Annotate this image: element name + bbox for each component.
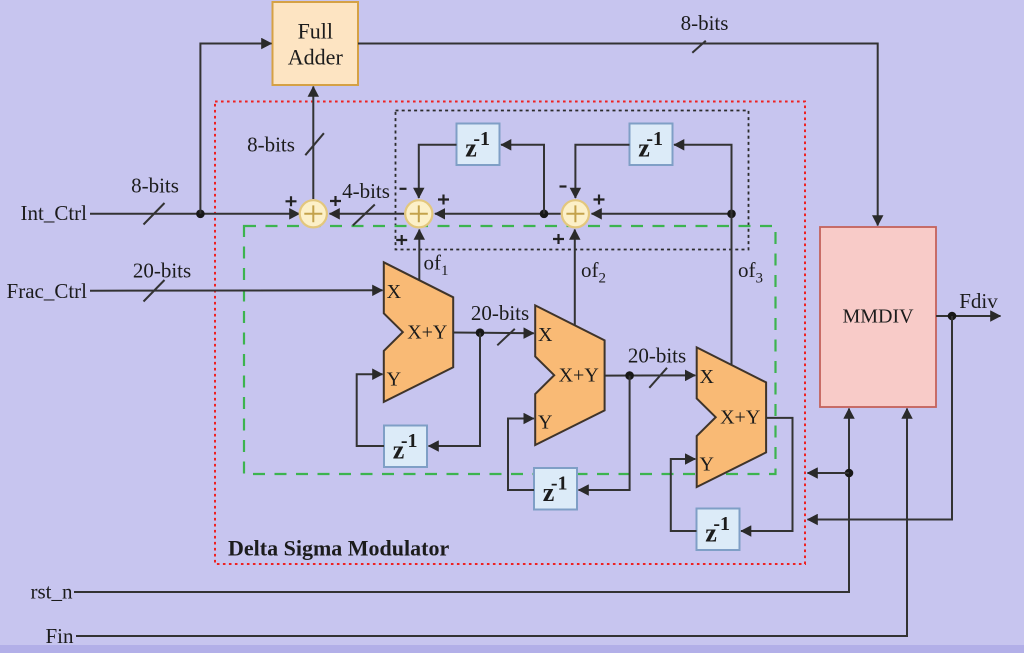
svg-text:Fdiv: Fdiv [959,289,998,313]
svg-text:X+Y: X+Y [559,365,599,387]
wire S3 to S2 [435,213,561,215]
svg-text:-1: -1 [713,513,730,535]
accumulator adder A3 [697,347,766,487]
delay block Z1 [457,124,500,166]
svg-text:Frac_Ctrl: Frac_Ctrl [7,279,88,303]
svg-text:8-bits: 8-bits [131,174,179,198]
svg-text:20-bits: 20-bits [628,344,686,368]
node junction A1 output [476,328,485,337]
wire Z1 to S2 [419,145,457,198]
svg-text:X+Y: X+Y [720,407,760,429]
svg-text:X: X [538,324,553,346]
svg-text:X: X [699,366,714,388]
svg-text:X: X [387,281,402,303]
wire A2 tap to Z4 [579,376,630,490]
svg-text:-1: -1 [473,128,490,150]
summing node S1 [300,200,327,227]
block Full Adder [273,2,359,85]
svg-text:Y: Y [387,369,401,391]
svg-text:20-bits: 20-bits [471,301,529,325]
wire Frac_Ctrl input [90,280,383,302]
wire Fdiv output [936,315,1001,317]
wire rst_n [74,409,849,593]
wire A3 output to Z5 [741,418,793,531]
svg-text:Adder: Adder [288,45,344,70]
block MMDIV [820,227,936,407]
delay block Z5 [697,509,740,551]
node junction Fdiv [948,312,957,321]
svg-text:Delta Sigma Modulator: Delta Sigma Modulator [228,536,449,561]
wire Int_Ctrl to Full Adder [200,44,271,214]
svg-text:Y: Y [699,454,713,476]
svg-text:Fin: Fin [45,624,74,648]
node junction rst_n [845,469,854,478]
green dashed boundary accumulator core [244,226,776,474]
svg-text:-1: -1 [551,473,568,495]
node junction of3 [727,210,736,219]
sign plus S3 right [594,195,605,205]
sign minus S3 top [560,185,567,187]
wire A1 output 20-bits to A2 [453,329,534,346]
sign plus S3 bottom [553,234,564,244]
svg-text:20-bits: 20-bits [133,259,191,283]
summing node S2 [405,200,432,227]
svg-text:Full: Full [298,19,333,44]
bottom band [0,645,1024,653]
svg-text:Int_Ctrl: Int_Ctrl [21,201,88,225]
wire A1 tap to Z3 [429,333,481,446]
wire Z2 to S3 [575,145,629,198]
node junction A2 output [625,371,634,380]
summing node S3 [562,200,589,227]
svg-text:-1: -1 [401,430,418,452]
svg-text:8-bits: 8-bits [247,133,295,157]
wire Z4 to A2 Y [508,419,534,491]
wire Fdiv feedback to DSM [808,316,953,520]
black dotted boundary error-feedback network [396,111,749,250]
svg-text:X+Y: X+Y [407,322,447,344]
accumulator adder A2 [535,305,604,445]
delay block Z2 [630,124,673,166]
delay block Z4 [534,468,577,510]
wire A2 output 20-bits to A3 [605,368,696,388]
wire S1 to Full Adder 8-bits [305,87,324,200]
sign plus S1 left [286,196,297,206]
wire Full Adder output 8-bits to MMDIV [358,41,878,226]
node junction Int_Ctrl [196,210,205,219]
wire tap to Z2 [674,145,732,214]
svg-text:4-bits: 4-bits [342,179,390,203]
wire rst_n branch to DSM [808,472,850,474]
sign plus S1 right [330,196,341,206]
svg-text:8-bits: 8-bits [681,11,729,35]
wire S2 to S1 4-bits [330,205,405,226]
wire Z3 to A1 Y [357,374,384,446]
wire Z5 to A3 Y [671,459,697,531]
wire tap to Z1 [501,145,544,214]
wire of2 A2 to S3 [574,230,576,326]
sign plus S2 right [438,195,449,205]
delay block Z3 [384,426,427,468]
red dashed boundary Delta Sigma Modulator [215,102,805,565]
svg-text:Y: Y [538,412,552,434]
sign plus S2 bottom [396,235,407,245]
svg-text:-1: -1 [646,128,663,150]
wire of1 A1 to S2 [418,230,420,281]
accumulator adder A1 [384,262,453,402]
node junction Z1 tap [540,210,549,219]
sign minus S2 top [400,188,407,190]
wire of3 A3 up [731,214,733,365]
wire Int_Ctrl input [90,203,300,225]
wire Fin [76,409,907,637]
svg-text:rst_n: rst_n [31,580,74,604]
wire of3 node to S3 [592,213,732,215]
svg-text:MMDIV: MMDIV [842,306,914,328]
